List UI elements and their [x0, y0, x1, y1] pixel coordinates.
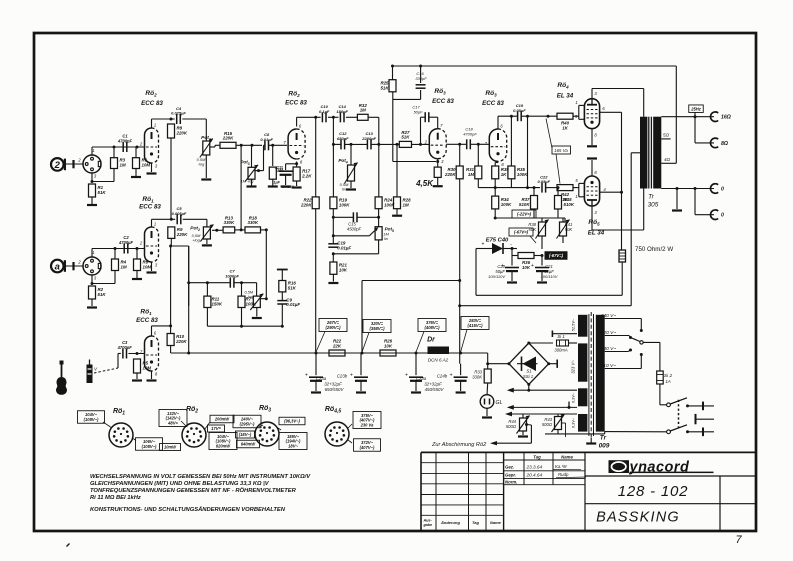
wire C24b drop — [460, 364, 462, 376]
wire R5 to ground — [136, 373, 138, 379]
output terminal 16 Ohm — [710, 112, 730, 122]
wire Pot2 wiper to R13 — [212, 229, 223, 232]
wire R27 to grid — [412, 143, 430, 145]
svg-text:0: 0 — [721, 213, 724, 219]
bridge rectifier S1 — [507, 342, 550, 386]
resistor R19 100K — [330, 197, 350, 209]
resistor R45 510K — [555, 196, 575, 210]
output terminal 0 b — [710, 210, 724, 220]
wire tone bottom line — [207, 325, 283, 328]
winding labels Tr009 — [571, 318, 576, 428]
capacitor C5 0.005uF — [172, 206, 187, 224]
svg-text:+: + — [531, 263, 534, 269]
wire R24 conns — [378, 144, 380, 217]
label R33 — [472, 370, 482, 380]
wire cathode ch1 to ground — [151, 163, 153, 172]
wire b-plus screens left — [475, 249, 477, 296]
wire R4 top — [114, 249, 116, 260]
socket box 106V — [136, 438, 163, 451]
potentiometer Pot1 0.5M — [200, 139, 213, 158]
wire 8 Ohm drop — [695, 117, 714, 143]
svg-text:220K: 220K — [175, 339, 187, 344]
svg-text:+: + — [482, 242, 485, 248]
label -67V inverse box — [545, 251, 568, 260]
page number 7 — [67, 534, 743, 547]
svg-text:(-22V=): (-22V=) — [517, 212, 532, 217]
svg-text:620mW: 620mW — [216, 443, 231, 448]
wire C18 to grid — [470, 143, 489, 146]
svg-text:450/550V: 450/550V — [425, 387, 445, 392]
wire socket2 pin3 down — [91, 271, 116, 286]
svg-text:100/110V: 100/110V — [541, 274, 558, 279]
resistor R35 100K — [508, 166, 528, 179]
svg-text:ECC 83: ECC 83 — [139, 203, 161, 210]
svg-text:52,5V~: 52,5V~ — [571, 318, 576, 331]
capacitor C7 1000pF — [225, 269, 239, 288]
label C15 — [347, 222, 362, 232]
svg-text:Gepr.: Gepr. — [505, 473, 516, 478]
svg-text:48V=: 48V= — [167, 420, 178, 425]
primary tap 110V — [601, 353, 643, 369]
capacitor C18 4700uF — [467, 139, 471, 149]
svg-text:C24b: C24b — [437, 374, 448, 379]
leader s4a — [348, 424, 352, 443]
wire lower grid line — [478, 187, 540, 189]
svg-text:GL: GL — [496, 400, 503, 406]
resistor R32 1M — [357, 103, 368, 121]
socket box 640mW — [237, 440, 260, 448]
svg-text:110 V~: 110 V~ — [601, 363, 616, 369]
label C17 — [412, 105, 423, 115]
svg-text:1M -log: 1M -log — [241, 179, 255, 184]
svg-text:SSi 1: SSi 1 — [523, 374, 534, 379]
wire C3 to grid ch3 — [128, 352, 144, 355]
ground under R6b — [132, 278, 142, 280]
resistor R26 10K — [380, 339, 396, 357]
svg-text:240 V~: 240 V~ — [600, 313, 617, 319]
svg-text:300mA: 300mA — [554, 348, 567, 353]
wire riser x188 — [187, 246, 190, 355]
capacitor C2 4700pF — [118, 235, 133, 254]
wire selector to Si2 — [643, 342, 660, 371]
svg-text:6,3V~: 6,3V~ — [571, 392, 576, 403]
svg-text:ECC 83: ECC 83 — [432, 98, 454, 105]
ground C24b — [456, 391, 466, 393]
resistor R11 150K — [204, 296, 223, 307]
svg-text:10M: 10M — [143, 264, 152, 269]
svg-text:Gez.: Gez. — [505, 464, 514, 469]
capacitor C4 0.025uF — [171, 106, 186, 124]
wire Roe5 cathode up — [591, 160, 593, 176]
svg-text:6,3V~: 6,3V~ — [571, 417, 576, 428]
drawing number 128-102 — [618, 483, 689, 500]
label C23ab — [316, 374, 348, 393]
wire Roe5 anode — [592, 189, 644, 231]
tube label Roe3 ECC83 (splitter a) — [432, 88, 454, 105]
potentiometer R44 500 — [517, 416, 530, 434]
svg-text:20.4.64: 20.4.64 — [526, 473, 543, 478]
wire Roe4 screen — [600, 111, 622, 113]
potentiometer Pot4 0.5M — [345, 163, 358, 184]
wire anode stage2 riser — [296, 117, 298, 126]
capacitor C23a 32uF — [305, 373, 323, 381]
wire C11 gnd — [285, 175, 287, 185]
svg-text:1: 1 — [575, 194, 577, 199]
wire R18 right — [261, 229, 267, 231]
wire input1 to socket — [66, 160, 83, 168]
ground GL — [482, 416, 492, 418]
wire R36 to C21 — [534, 254, 544, 266]
wire Tr305 sec bottom — [661, 187, 714, 190]
resistor R9 220K — [168, 227, 188, 239]
ground Tr009 — [586, 442, 596, 444]
capacitor C17 50pF — [425, 112, 429, 122]
svg-text:130 V~: 130 V~ — [601, 346, 617, 352]
wire R40 to Roe4 grid — [573, 115, 579, 117]
wire tone loop line — [187, 281, 256, 284]
wire R22b down — [315, 209, 317, 353]
tube label Roe4 EL34 — [557, 82, 574, 100]
capacitor C9 0.01uF — [277, 297, 300, 307]
svg-text:4700pF: 4700pF — [463, 132, 477, 137]
svg-text:GLEICHSPANNUNGEN (MIT) UND: GLEICHSPANNUNGEN (MIT) UND OHNE BELASTUN… — [90, 481, 270, 487]
input connector 2 (channel 1) — [51, 158, 65, 171]
ground Pot3 — [247, 185, 257, 187]
wire R16 top bar — [277, 270, 288, 281]
label C20 — [488, 264, 506, 279]
mains switch bottom — [667, 425, 714, 436]
svg-text:(108V~): (108V~) — [142, 444, 157, 449]
wire jack dashed — [94, 354, 121, 374]
svg-text:17V=: 17V= — [211, 426, 221, 431]
svg-text:(108V~): (108V~) — [84, 417, 99, 422]
svg-text:100K: 100K — [501, 202, 512, 207]
svg-text:4700µF: 4700µF — [118, 240, 133, 245]
socket box 104Vb — [209, 433, 237, 450]
svg-text:(408V=): (408V=) — [424, 325, 440, 330]
label E75 C40 — [486, 238, 509, 244]
transformer Tr009 core — [589, 312, 594, 438]
svg-text:KONSTRUKTIONS- UND SCHALTUNG: KONSTRUKTIONS- UND SCHALTUNGSÄNDERUNGEN … — [90, 506, 286, 513]
svg-text:220 V~: 220 V~ — [600, 330, 617, 336]
wire R38 conns — [541, 218, 543, 249]
capacitor C15 4500pF — [353, 212, 357, 222]
svg-text:10mW: 10mW — [164, 445, 177, 450]
ground under Pot1 — [201, 178, 211, 180]
glow lamp GL — [480, 395, 502, 409]
wire R43 conns — [557, 414, 559, 434]
ground Pot4 — [346, 188, 356, 190]
wire C9 down — [281, 304, 283, 326]
svg-text:lin: lin — [384, 236, 388, 241]
ground C23b — [356, 391, 366, 393]
wire C14-R32 — [346, 116, 358, 118]
wire cathode Roe3b — [495, 162, 498, 167]
wire splitter grid line — [379, 143, 400, 145]
svg-text:+: + — [350, 373, 353, 379]
resistor R31 1M — [466, 166, 482, 179]
svg-text:180pF: 180pF — [336, 109, 348, 114]
heater wire arrow 3 — [505, 412, 577, 417]
svg-text:0,5M: 0,5M — [245, 291, 254, 295]
leader 376V — [416, 332, 424, 353]
svg-text:E75 C40: E75 C40 — [486, 238, 509, 244]
choke Dr — [427, 337, 449, 363]
svg-text:4500pF: 4500pF — [347, 227, 362, 232]
wire Tr009 ground — [590, 438, 592, 443]
capacitor C21 50uF — [531, 263, 549, 271]
wire R28 conns — [396, 143, 399, 215]
ground Roe4 — [587, 145, 597, 147]
resistor R8 220K — [168, 124, 188, 138]
svg-text:10K: 10K — [522, 265, 531, 270]
svg-text:0.01µF: 0.01µF — [337, 245, 351, 250]
wire R41 conns — [562, 218, 564, 243]
output terminal 0 a — [710, 184, 724, 194]
wire Tr305 sec top — [661, 115, 714, 118]
wire R42 to Roe5 grid — [573, 187, 579, 189]
wire grid line channel 2 — [92, 247, 145, 250]
wire anode ch3 riser — [151, 326, 153, 336]
capacitor C12 680pF — [337, 131, 349, 149]
label 165Va box — [546, 119, 571, 184]
title block labels — [423, 454, 587, 527]
ground under R1 — [87, 204, 97, 206]
leader s1a — [103, 422, 112, 428]
svg-text:100K: 100K — [517, 172, 528, 177]
svg-text:330K: 330K — [472, 375, 482, 380]
tube label Roe1 ECC83 (ch3) — [136, 309, 158, 324]
svg-text:0.05µF: 0.05µF — [513, 108, 526, 113]
wire bridge right — [549, 360, 558, 368]
svg-text:16Ω: 16Ω — [721, 115, 731, 121]
socket box 372V — [354, 439, 381, 452]
ground cathode ch3 — [147, 379, 157, 381]
triode Roe3b ECC83 — [485, 124, 507, 167]
label C24ab — [416, 374, 448, 393]
resistor R18 330K — [245, 215, 261, 233]
tube label Roe3 ECC83 (splitter b) — [482, 90, 504, 107]
resistor R30 220K — [444, 166, 463, 179]
svg-text:510K: 510K — [564, 202, 575, 207]
input connector a (channel 2) — [51, 260, 65, 273]
wire R29 gnd — [437, 177, 439, 185]
wire winding AC2 — [552, 331, 577, 338]
label Pot1 — [197, 135, 211, 167]
ground Tr305 secondary — [672, 209, 682, 211]
svg-text:51K: 51K — [98, 292, 107, 297]
svg-text:(290V=): (290V=) — [325, 325, 341, 330]
wire cathode ch2 to ground — [151, 262, 153, 271]
label 376V box — [418, 319, 446, 332]
svg-text:S1: S1 — [526, 369, 532, 374]
svg-text:a: a — [55, 262, 60, 273]
wire Tr009 bottom to switch — [545, 432, 667, 434]
svg-text:(358V=): (358V=) — [369, 326, 385, 331]
wire ch3 anode line — [152, 325, 171, 327]
svg-text:C23a: C23a — [316, 376, 327, 381]
wire Pot5 wiper line — [332, 234, 370, 237]
ground under Pot2 — [202, 244, 212, 246]
label Tr009 — [599, 435, 610, 450]
wire Pot4 conn — [350, 144, 352, 188]
ground C20 — [507, 281, 517, 283]
leader 320V — [362, 333, 369, 353]
leader 283V — [461, 330, 467, 353]
svg-text:100/110V: 100/110V — [488, 274, 505, 279]
resistor R4 1M — [112, 259, 127, 271]
wire mix node — [235, 228, 245, 231]
leader s1b — [133, 439, 136, 441]
wire R39 bottom — [494, 179, 497, 189]
ground cathode ch1 — [147, 172, 157, 174]
label Zur Abschirmung arrowline — [530, 442, 532, 444]
svg-text:EL 34: EL 34 — [557, 93, 574, 100]
wire C16 top — [420, 66, 422, 83]
label C18 — [463, 127, 477, 137]
svg-text:(295V~): (295V~) — [240, 421, 255, 426]
svg-text:220K: 220K — [300, 202, 312, 207]
svg-text:150K: 150K — [212, 301, 223, 306]
resistor R3 1M — [111, 158, 126, 169]
wire y281 line — [362, 280, 460, 282]
wire top NFB bus — [391, 65, 676, 68]
wire bias line y218 — [495, 209, 565, 222]
output terminal 8 Ohm — [710, 138, 727, 148]
label Pot5 — [383, 227, 394, 242]
wire input2 to socket — [66, 262, 83, 270]
wire mix riser x241 — [240, 145, 242, 230]
wire Pot1 wiper to R15 — [210, 145, 220, 147]
wire C10-C14 — [328, 116, 339, 118]
svg-text:4700pF: 4700pF — [117, 345, 133, 350]
svg-text:100K: 100K — [339, 202, 350, 207]
wire Roe4 anode — [592, 89, 644, 117]
mains switch top — [667, 398, 714, 410]
svg-text:51K: 51K — [380, 85, 389, 90]
wire Tr305 center tap — [631, 153, 640, 306]
resistor R2 51K — [89, 286, 107, 299]
capacitor C19 0.05uF — [513, 103, 526, 121]
wire R32 right — [368, 117, 380, 146]
triode Roe1a ECC83 (channel 2) — [139, 222, 159, 268]
resistor R10 220K — [167, 334, 187, 346]
svg-text:Ka.¹9r: Ka.¹9r — [555, 464, 567, 469]
svg-text:ECC 83: ECC 83 — [141, 100, 163, 107]
capacitor C23b 32uF — [350, 373, 368, 381]
heater wire arrow 1 — [507, 388, 577, 393]
tube label Roe5 EL34 — [588, 219, 605, 237]
wire Pot2 to ground — [206, 239, 208, 244]
wire C8 to grid2 — [269, 144, 288, 147]
wire stage2 anode column — [315, 117, 317, 197]
socket box 10mW — [160, 444, 181, 451]
svg-text:Dr: Dr — [427, 337, 436, 344]
socket box 185V — [279, 433, 307, 450]
label R43 — [542, 417, 553, 427]
wire Roe4 cathode — [591, 129, 593, 145]
wire C24b gnd — [460, 381, 462, 391]
svg-text:(407V~): (407V~) — [360, 445, 375, 450]
wire coupling line left — [332, 116, 341, 197]
resistor 1M grid leak — [269, 167, 283, 179]
wire grid leak gnd — [272, 179, 274, 185]
wire R36 line — [512, 255, 518, 257]
DIN socket Bu1 (channel 1) — [77, 148, 101, 178]
svg-text:1M: 1M — [360, 108, 366, 113]
label 283V box — [461, 317, 489, 330]
svg-text:680pF: 680pF — [337, 136, 349, 141]
svg-text:(415V=): (415V=) — [467, 323, 483, 328]
heater center tap tick — [568, 402, 571, 409]
svg-text:(18V~): (18V~) — [239, 432, 252, 437]
ground R28 — [392, 215, 402, 217]
svg-text:Tag: Tag — [533, 454, 541, 459]
wire C17 to anode Roe3a — [429, 117, 438, 129]
label 267V box — [319, 319, 347, 332]
wire R30 conn — [459, 144, 461, 280]
svg-text:1000pF: 1000pF — [225, 273, 239, 278]
wire R17 gnd — [296, 181, 298, 186]
svg-text:(96,3V~): (96,3V~) — [284, 419, 300, 424]
svg-text:-log: -log — [198, 162, 205, 167]
svg-text:50K: 50K — [529, 227, 537, 232]
transformer Tr305 core — [640, 117, 661, 189]
triode Roe3a ECC83 — [424, 123, 447, 164]
triode Roe2a ECC83 (channel 1) — [139, 123, 159, 169]
wire C4 to Pot1 — [182, 119, 206, 141]
wire 750ohm down — [476, 262, 622, 295]
svg-text:1µF: 1µF — [273, 181, 280, 185]
wire R6 to ground — [135, 169, 137, 177]
svg-text:BASSKING: BASSKING — [596, 510, 680, 526]
svg-text:220K: 220K — [222, 136, 234, 141]
tube socket Roe3 — [255, 422, 279, 446]
wire NFB node — [393, 90, 421, 162]
tap 4 Ohm NFB — [661, 66, 676, 163]
svg-text:-log: -log — [247, 295, 254, 299]
resistor R5 10M — [134, 359, 152, 373]
wire y305 line — [460, 305, 632, 307]
wire R19 conns — [332, 209, 334, 217]
ground under R5 — [132, 379, 142, 381]
resistor R6b 10M — [134, 259, 152, 271]
svg-text:Ri 11 MΩ BEI 1kHz: Ri 11 MΩ BEI 1kHz — [90, 495, 141, 501]
svg-text:305: 305 — [648, 202, 659, 209]
wire fb line y218 — [332, 216, 380, 219]
svg-text:Name: Name — [561, 454, 573, 459]
wire splitter lower feed — [526, 116, 529, 189]
socket box 132V — [159, 410, 187, 427]
svg-text:22K: 22K — [332, 343, 342, 348]
wire C12-C13 — [345, 143, 368, 146]
wire C23a drop — [315, 353, 317, 375]
svg-text:+: + — [450, 373, 453, 379]
wire sec bottom ground — [676, 189, 678, 210]
wire R7 conns — [241, 283, 243, 327]
resistor R28 1M — [394, 197, 412, 209]
wire R44 conns — [522, 414, 524, 435]
wire R21 gnd — [332, 274, 334, 281]
resistor R36 10K — [518, 253, 534, 270]
socket box 375V — [353, 412, 381, 429]
wire R2 to ground — [91, 299, 93, 306]
resistor R13 330K — [223, 215, 235, 233]
resistor R21 10K — [330, 262, 348, 274]
potentiometer Pot3 1M — [245, 165, 258, 182]
svg-text:32+32µF: 32+32µF — [324, 382, 342, 387]
label Pot3 — [240, 160, 254, 184]
